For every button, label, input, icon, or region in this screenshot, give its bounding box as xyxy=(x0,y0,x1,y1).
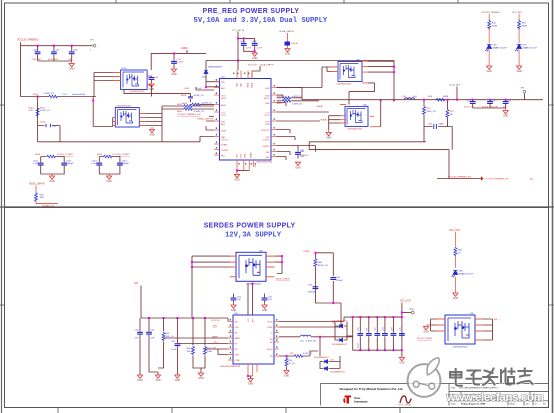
U10 left pin labels xyxy=(235,322,241,363)
svg-text:GB2: GB2 xyxy=(265,157,270,159)
transistor Q2 CSD86350Q5D lower xyxy=(115,106,139,128)
ground VCC_OUT caps xyxy=(399,358,405,365)
capacitor C020 xyxy=(464,100,476,109)
svg-text:R08: R08 xyxy=(428,96,433,98)
svg-text:CSD86350Q5D: CSD86350Q5D xyxy=(452,347,468,349)
testpoint TP05 xyxy=(401,309,415,314)
svg-text:C61: C61 xyxy=(336,277,341,279)
U1 left pin stubs xyxy=(214,82,220,155)
svg-text:HOL1: HOL1 xyxy=(221,98,227,100)
svg-text:FB2: FB2 xyxy=(266,152,271,154)
svg-text:12V: 12V xyxy=(134,282,139,285)
op IC U10 LM5360 regulator xyxy=(220,313,274,368)
U10 top pin labels xyxy=(248,317,255,322)
svg-text:VDDA: VDDA xyxy=(251,82,254,88)
svg-text:LOL1: LOL1 xyxy=(221,115,227,117)
svg-text:R70: R70 xyxy=(427,108,432,110)
svg-text:CSD86350Q5D: CSD86350Q5D xyxy=(129,91,145,93)
svg-text:4.7uF: 4.7uF xyxy=(246,48,252,50)
wire cap bottoms xyxy=(38,60,72,62)
ground C030 xyxy=(295,162,301,169)
svg-text:R02: R02 xyxy=(40,195,45,197)
svg-text:COMP: COMP xyxy=(303,251,310,253)
ground C015 xyxy=(171,68,177,77)
pin stubs Q1 xyxy=(113,73,152,86)
svg-text:C73: C73 xyxy=(383,328,385,331)
svg-text:TP1: TP1 xyxy=(90,40,95,42)
svg-text:R41: R41 xyxy=(522,22,527,24)
svg-text:R40: R40 xyxy=(492,22,497,24)
svg-text:GNDA_SMP_S3: GNDA_SMP_S3 xyxy=(197,118,214,121)
svg-text:5V,10A and 3.3V,10A Dual SUPPL: 5V,10A and 3.3V,10A Dual SUPPLY xyxy=(194,17,328,25)
svg-text:1uF: 1uF xyxy=(135,338,139,340)
wire Q4 source loop xyxy=(349,83,375,105)
svg-text:4.99K_1%: 4.99K_1% xyxy=(303,353,312,355)
svg-text:LOL2: LOL2 xyxy=(264,115,270,117)
wires into Q1 from left bus xyxy=(94,73,113,97)
svg-text:SYNOUT: SYNOUT xyxy=(261,130,270,132)
U10 left pin stubs xyxy=(228,322,233,361)
svg-text:0.1uF: 0.1uF xyxy=(196,88,202,90)
svg-text:D10: D10 xyxy=(332,323,337,325)
svg-text:SD103AWS/SOT: SD103AWS/SOT xyxy=(332,320,348,323)
LED circuit D003 xyxy=(512,12,537,66)
wire input bus sheet2 xyxy=(141,286,228,322)
node junction U08 bottom xyxy=(252,283,254,285)
svg-text:BOOST_SRLW: BOOST_SRLW xyxy=(417,338,433,340)
ground input caps xyxy=(69,61,75,71)
resistor R030 divider xyxy=(423,99,436,127)
watermark chinese characters xyxy=(450,369,533,386)
wires branches to U10 pins xyxy=(164,338,229,355)
svg-text:VDD_INT: VDD_INT xyxy=(248,64,258,66)
svg-text:470uF: 470uF xyxy=(358,342,360,348)
sheet outer scan edge left xyxy=(1,0,3,413)
capacitor C41 xyxy=(146,318,158,375)
ground C51 xyxy=(231,304,237,313)
wire into U1 lower-left pins xyxy=(200,117,214,142)
svg-text:VSS: VSS xyxy=(237,153,239,158)
ground LED D20 xyxy=(453,293,459,300)
svg-text:LM53603 5RNLRVM: LM53603 5RNLRVM xyxy=(220,366,240,368)
svg-text:PB1: PB1 xyxy=(221,156,226,158)
capacitor C42 xyxy=(171,318,180,375)
svg-text:EN1: EN1 xyxy=(213,325,218,327)
svg-text:56pF: 56pF xyxy=(52,126,58,128)
svg-text:R55: R55 xyxy=(290,353,295,355)
svg-text:1uF: 1uF xyxy=(237,299,241,301)
svg-text:VDDA_VMP HI: VDDA_VMP HI xyxy=(279,30,294,33)
testpoint TP2 xyxy=(521,88,526,93)
svg-text:SD103AWS/SOT: SD103AWS/SOT xyxy=(330,371,346,374)
output rail wire sheet1 xyxy=(302,87,543,100)
svg-text:33pF: 33pF xyxy=(439,124,445,126)
resistor R45 xyxy=(158,318,174,368)
svg-text:R010: R010 xyxy=(29,108,35,110)
ground LED D003 xyxy=(516,66,522,73)
capacitor C030 right of U1 bottom xyxy=(295,145,309,159)
node junctions input bus xyxy=(148,317,150,319)
svg-text:LED: LED xyxy=(522,44,527,46)
capacitor C022 xyxy=(503,100,512,109)
wire Q1 bottom to right xyxy=(124,85,191,97)
node junction comp bottom xyxy=(332,302,334,304)
svg-text:R003: R003 xyxy=(177,111,183,113)
wire caps bottom rail xyxy=(473,107,506,109)
svg-text:COMP: COMP xyxy=(267,327,273,329)
testpoint TP1 xyxy=(90,40,96,53)
LED circuit D002 xyxy=(481,12,508,66)
svg-text:HS: HS xyxy=(270,342,273,344)
svg-text:0.02R_1%: 0.02R_1% xyxy=(194,104,204,106)
svg-text:CSD86350Q5D: CSD86350Q5D xyxy=(336,84,352,86)
svg-text:RAMP: RAMP xyxy=(235,337,241,340)
transistor Q1 CSD86350Q5D xyxy=(121,68,148,93)
svg-text:EN1: EN1 xyxy=(221,124,226,126)
wire U1 bottom gnd bus xyxy=(237,170,249,172)
svg-text:R50: R50 xyxy=(458,249,463,251)
svg-text:HOL2: HOL2 xyxy=(264,98,270,100)
svg-text:0.1uF: 0.1uF xyxy=(33,163,39,165)
wires Q3 left bus xyxy=(329,116,340,130)
transistor Q3 CSD86350Q5D right xyxy=(345,104,368,130)
svg-text:R45: R45 xyxy=(166,333,171,335)
ground R56 xyxy=(284,371,290,378)
svg-text:R71: R71 xyxy=(450,111,455,113)
svg-text:R002: R002 xyxy=(177,104,183,106)
svg-text:VDD: VDD xyxy=(241,82,243,87)
svg-text:VCC_INT HI: VCC_INT HI xyxy=(232,30,245,32)
capacitor bank C70-C75 xyxy=(357,317,404,350)
svg-text:LIMIT: LIMIT xyxy=(221,131,227,133)
U10 pin numbers xyxy=(230,319,278,359)
comp network R008/C011/C010 xyxy=(33,154,74,174)
svg-text:C60: C60 xyxy=(428,124,433,126)
ground C001 C002 xyxy=(252,53,258,60)
svg-text:COMP2: COMP2 xyxy=(262,146,270,148)
svg-text:10.0R_1%: 10.0R_1% xyxy=(194,95,204,97)
ground comp network B xyxy=(107,174,113,183)
svg-text:6.8uH_7A: 6.8uH_7A xyxy=(306,340,316,343)
svg-text:R011: R011 xyxy=(40,108,46,110)
ground Q3 xyxy=(326,130,332,140)
svg-text:VOUT2: VOUT2 xyxy=(263,140,271,142)
svg-text:SMAR-TD-LTP: SMAR-TD-LTP xyxy=(493,46,508,49)
svg-text:4.7K: 4.7K xyxy=(29,110,34,112)
pin stubs U09 xyxy=(437,319,483,340)
pin stubs Q3 xyxy=(340,105,381,127)
U1 pin numbers xyxy=(216,73,275,165)
svg-text:R004: R004 xyxy=(181,95,187,97)
diode D13 xyxy=(320,362,346,374)
svg-text:C40: C40 xyxy=(135,330,140,332)
wire VCC_OUT vertical xyxy=(401,303,403,358)
svg-text:LED: LED xyxy=(493,44,498,46)
svg-text:TP05: TP05 xyxy=(409,309,415,311)
svg-text:www.elecfans.com: www.elecfans.com xyxy=(446,390,544,404)
node junction Q2 left xyxy=(92,100,94,102)
ground ferrite xyxy=(285,49,291,56)
ground output caps xyxy=(503,108,509,118)
transistor U09 CSD86350Q5D right xyxy=(445,313,475,349)
op IC U1 LM5119 controller xyxy=(220,77,273,164)
svg-text:SMAR-TD-LTP: SMAR-TD-LTP xyxy=(459,272,474,275)
wire nested fb loop xyxy=(448,124,453,178)
TI logo xyxy=(343,396,367,404)
svg-text:0R: 0R xyxy=(450,114,453,116)
svg-text:VDDA1_PG: VDDA1_PG xyxy=(42,204,54,207)
U10 right pin labels xyxy=(267,322,274,359)
resistor R012 xyxy=(35,186,59,204)
capacitor cluster labels below U1 right xyxy=(300,150,305,158)
capacitor C015 0.47uF xyxy=(171,52,184,67)
resistor R47 xyxy=(201,318,213,373)
svg-text:VIN: VIN xyxy=(221,82,225,84)
ground LED D002 xyxy=(487,66,493,73)
svg-text:VCC5V0_PREREG_PG: VCC5V0_PREREG_PG xyxy=(485,179,509,181)
svg-text:AGND: AGND xyxy=(250,152,253,158)
svg-text:RTSEL: RTSEL xyxy=(221,145,229,147)
ground at C014 xyxy=(149,83,155,92)
net label VDD_INT VDDA_VMP xyxy=(248,63,274,78)
diode D10 xyxy=(332,320,348,333)
current sense resistors R020/R021 row right xyxy=(277,96,320,106)
svg-text:L10: L10 xyxy=(300,341,304,343)
wires Q2 left xyxy=(93,97,113,127)
svg-text:0mohm/1%A: 0mohm/1%A xyxy=(72,93,85,96)
wire cap bank rails xyxy=(353,317,402,350)
sheet2 border frame xyxy=(5,208,549,408)
ferrite bead VDDA_VMP xyxy=(279,30,298,48)
svg-text:330R: 330R xyxy=(522,25,528,27)
svg-text:12V,3A SUPPLY: 12V,3A SUPPLY xyxy=(225,232,282,240)
svg-text:47uF_OS: 47uF_OS xyxy=(464,107,474,109)
capacitor C023 33pF xyxy=(424,124,448,130)
capacitor C009 xyxy=(40,122,58,128)
svg-text:C009: C009 xyxy=(40,122,46,124)
svg-text:VOUT1: VOUT1 xyxy=(221,140,229,142)
svg-text:VCC5V0_PREREG_PG: VCC5V0_PREREG_PG xyxy=(448,176,472,178)
svg-text:C005: C005 xyxy=(184,88,190,90)
svg-text:AB1: AB1 xyxy=(221,87,226,90)
svg-text:86.6K_1%: 86.6K_1% xyxy=(318,265,328,267)
svg-text:0.47uF: 0.47uF xyxy=(177,62,184,64)
resistor R031 xyxy=(446,99,455,125)
node junction left rail xyxy=(37,96,39,98)
svg-text:GNDA: GNDA xyxy=(181,47,188,50)
svg-text:HS_J: HS_J xyxy=(494,319,499,321)
svg-text:1000pF: 1000pF xyxy=(122,163,130,165)
transistor U08 CSD86350Q5D xyxy=(236,250,266,285)
wires Q2 right to bus xyxy=(146,106,162,142)
svg-text:10R: 10R xyxy=(40,197,44,199)
svg-text:CILO: CILO xyxy=(235,327,240,329)
node junctions cap bank xyxy=(352,316,403,351)
svg-text:Instruments: Instruments xyxy=(354,401,368,404)
svg-text:VCC12V_PREREG: VCC12V_PREREG xyxy=(17,39,39,42)
wires U1 right side nets xyxy=(277,88,329,161)
svg-text:1K: 1K xyxy=(458,252,461,254)
svg-text:EN2: EN2 xyxy=(265,124,270,126)
svg-text:R60: R60 xyxy=(318,262,323,264)
capacitor C021 xyxy=(482,100,498,109)
watermark logo circle xyxy=(408,358,441,397)
svg-text:0.01uF: 0.01uF xyxy=(291,43,298,45)
net label VCC5V0_PREREG_PG off-page xyxy=(437,176,533,181)
inductor L001 xyxy=(402,96,417,99)
svg-text:0.1uF: 0.1uF xyxy=(92,163,98,165)
svg-text:3u3: 3u3 xyxy=(413,96,417,98)
wire Q3 out to rail xyxy=(380,100,382,126)
pin stubs U08 xyxy=(230,256,274,277)
node junctions input rail xyxy=(37,45,39,47)
capacitor C52 xyxy=(262,294,273,304)
sheet outer scan edge right xyxy=(552,0,554,413)
wire U08 to U10 verticals xyxy=(248,283,253,315)
capacitor C006 xyxy=(32,46,43,61)
pin stubs Q2 xyxy=(113,114,146,126)
svg-text:VCC: VCC xyxy=(248,317,250,322)
ground R46 R47 xyxy=(198,373,204,380)
svg-text:VIN: VIN xyxy=(235,322,239,324)
svg-text:VCC3V3_COMPT: VCC3V3_COMPT xyxy=(112,154,130,156)
svg-text:VCC5V_COMPT: VCC5V_COMPT xyxy=(57,154,74,156)
node junction U1 gnd xyxy=(236,170,238,172)
diode D11 xyxy=(332,333,353,346)
svg-text:C71: C71 xyxy=(367,328,369,331)
ground C52 xyxy=(262,304,268,313)
wire long bottom loop xyxy=(38,142,449,150)
ground C42 xyxy=(175,375,181,382)
node junctions output rail xyxy=(472,99,474,101)
wires U08 left bus xyxy=(192,256,230,318)
node junctions Q4 right xyxy=(393,66,395,68)
svg-text:330R: 330R xyxy=(492,25,498,27)
svg-text:FB: FB xyxy=(270,356,273,358)
svg-text:HB2: HB2 xyxy=(265,88,270,90)
capacitor C008 xyxy=(68,46,78,61)
resistor R55 FB divider xyxy=(279,351,318,357)
svg-text:0.02R_1%: 0.02R_1% xyxy=(44,93,54,95)
svg-text:0.1uF: 0.1uF xyxy=(171,349,177,351)
svg-text:SD103AWS/SOT: SD103AWS/SOT xyxy=(314,356,330,359)
current sense resistors into U1 xyxy=(162,104,214,113)
svg-text:TP2: TP2 xyxy=(521,88,526,90)
svg-text:GA1: GA1 xyxy=(300,150,305,153)
svg-text:[4]: [4] xyxy=(530,179,533,181)
U1 bottom pin labels xyxy=(237,152,253,158)
capacitor C51 xyxy=(231,294,242,304)
wires Q4 gates from U1 xyxy=(277,67,332,88)
svg-text:GNDA: GNDA xyxy=(316,105,323,108)
svg-text:C41: C41 xyxy=(151,330,156,332)
svg-text:R008: R008 xyxy=(35,154,41,156)
node junction VIN xyxy=(237,60,239,62)
svg-text:4.7uF: 4.7uF xyxy=(257,48,263,50)
resistor R46 xyxy=(187,318,202,368)
svg-text:CSD86350Q5D: CSD86350Q5D xyxy=(116,106,132,108)
svg-text:EN/B: EN/B xyxy=(221,105,226,107)
svg-text:CSD86350Q5D: CSD86350Q5D xyxy=(347,128,363,130)
svg-text:LED: LED xyxy=(459,270,464,272)
svg-text:C75: C75 xyxy=(400,328,402,331)
wire VIN rail to IC and Q4 xyxy=(206,61,394,88)
wires U08 right xyxy=(274,256,282,273)
resistor R007 current sense row xyxy=(21,93,97,98)
U1 top pin stubs xyxy=(237,71,252,79)
svg-text:CWS: CWS xyxy=(235,355,240,357)
svg-text:C70: C70 xyxy=(358,328,360,331)
svg-text:1K_1%: 1K_1% xyxy=(289,363,296,365)
svg-text:100K: 100K xyxy=(207,351,213,353)
ground U10 xyxy=(248,379,254,386)
LED circuit D20 sheet2 xyxy=(449,230,474,293)
svg-text:0R08: 0R08 xyxy=(443,96,449,98)
svg-text:VDDA_VMP HI: VDDA_VMP HI xyxy=(260,63,274,66)
title block frame xyxy=(321,384,549,406)
wire U10 bottom to ground xyxy=(248,376,253,379)
U1 bottom pin stubs xyxy=(237,160,256,171)
svg-text:SYNO: SYNO xyxy=(235,360,241,362)
svg-text:10.0K_1%: 10.0K_1% xyxy=(40,110,50,112)
resistor R56 xyxy=(285,355,295,370)
ground Q2 xyxy=(149,127,155,137)
svg-text:Texas: Texas xyxy=(354,397,360,400)
svg-text:BA2: BA2 xyxy=(266,102,271,105)
svg-text:C21: C21 xyxy=(492,100,497,102)
svg-text:BST: BST xyxy=(253,317,255,322)
svg-text:VCC5V0_PREREG: VCC5V0_PREREG xyxy=(481,12,500,14)
ground U1 xyxy=(234,171,240,182)
U1 right pin labels xyxy=(261,88,271,159)
svg-text:C005: C005 xyxy=(62,94,68,96)
svg-text:1uF: 1uF xyxy=(151,338,155,340)
comp network R009 xyxy=(92,154,131,174)
svg-text:C51: C51 xyxy=(237,297,242,299)
diode D12 xyxy=(314,356,340,369)
svg-text:C42: C42 xyxy=(171,341,176,343)
svg-text:SD103AWS/SOT: SD103AWS/SOT xyxy=(332,343,348,346)
inductor L10 xyxy=(279,335,353,356)
svg-text:C74: C74 xyxy=(391,328,393,331)
svg-text:8200pF: 8200pF xyxy=(308,292,316,294)
svg-text:VDDA_1MP HI: VDDA_1MP HI xyxy=(29,183,45,186)
svg-text:1: 1 xyxy=(90,50,92,52)
svg-text:VCC5_BLK: VCC5_BLK xyxy=(449,85,461,87)
U1 top pin labels xyxy=(237,82,254,88)
svg-text:R009: R009 xyxy=(97,154,103,156)
Mistral logo xyxy=(399,396,413,407)
svg-text:R46: R46 xyxy=(187,348,192,350)
svg-text:HS: HS xyxy=(270,339,273,341)
svg-text:1uF: 1uF xyxy=(268,299,272,301)
svg-text:C006: C006 xyxy=(240,41,246,43)
svg-text:RT: RT xyxy=(235,344,238,346)
svg-text:MISTRAL: MISTRAL xyxy=(399,404,413,407)
transistor Q4 CSD86350Q5D top right xyxy=(336,60,362,86)
svg-text:C52: C52 xyxy=(268,297,273,299)
svg-text:VDDA: VDDA xyxy=(247,82,250,88)
svg-text:PRE_REG POWER SUPPLY: PRE_REG POWER SUPPLY xyxy=(203,8,300,15)
node junctions U08 left xyxy=(191,261,193,263)
svg-text:0.02R_1%: 0.02R_1% xyxy=(194,111,204,113)
svg-text:EN: EN xyxy=(235,333,238,335)
svg-text:/SS: /SS xyxy=(235,349,239,351)
svg-text:1000pF: 1000pF xyxy=(66,163,74,165)
svg-text:1 U05: 1 U05 xyxy=(121,68,127,70)
svg-text:32K: 32K xyxy=(187,351,191,353)
wire VIN rail xyxy=(151,50,206,70)
